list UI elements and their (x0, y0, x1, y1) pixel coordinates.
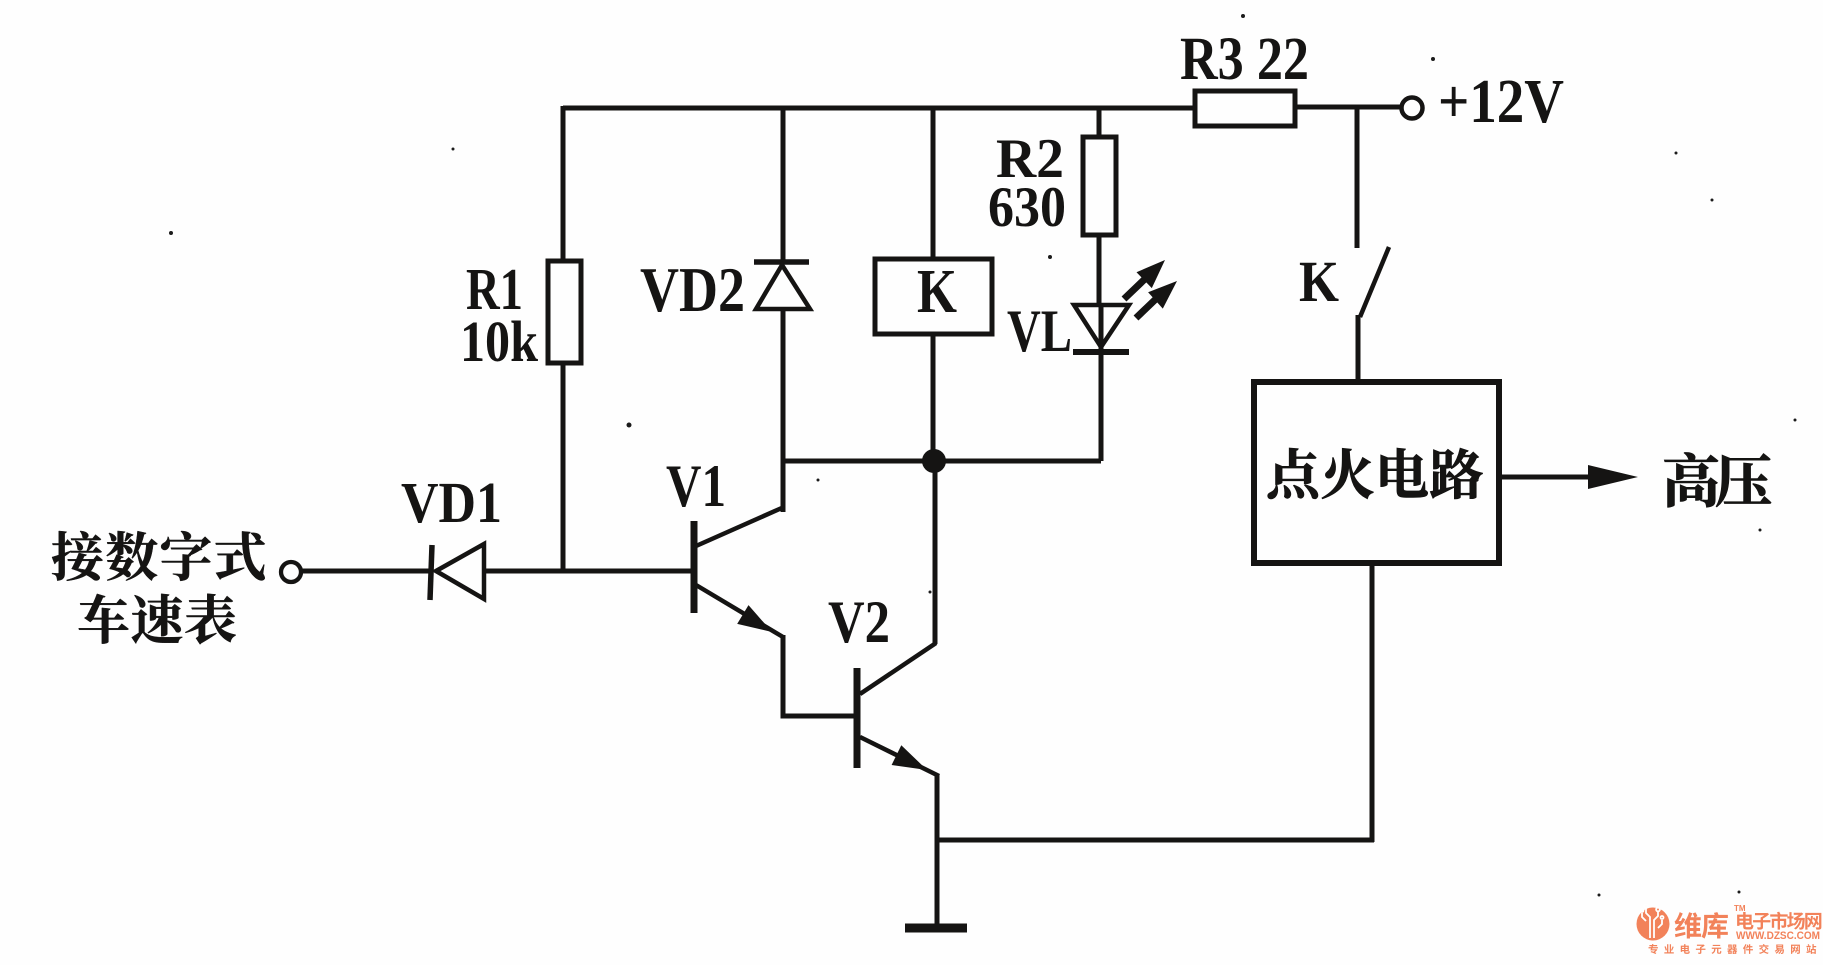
diode VD2 (754, 262, 810, 309)
label 高压 (1664, 453, 1771, 508)
svg-text:10k: 10k (460, 309, 539, 374)
watermark logo (1637, 904, 1670, 940)
terminal +12V (1402, 98, 1423, 119)
svg-text:V1: V1 (666, 453, 726, 519)
label 车速表 (79, 594, 236, 645)
wire R2 to VL (1097, 235, 1102, 308)
ground (905, 924, 967, 933)
wire input terminal to VD1 (302, 569, 432, 574)
wire V1 emitter to V2 base (783, 635, 857, 716)
wire V2 emitter down to ground (935, 775, 940, 928)
wire top rail down to R1 (561, 106, 566, 262)
transistor V1 (694, 460, 784, 637)
svg-text:630: 630 (988, 176, 1066, 239)
resistor R1 (548, 261, 581, 363)
svg-text:+12V: +12V (1438, 68, 1564, 136)
watermark 维库 (1675, 912, 1728, 939)
svg-text:K: K (917, 258, 957, 326)
LED VL (1073, 305, 1129, 352)
ignition circuit block 点火电路 (1254, 382, 1499, 563)
transistor V2 (857, 643, 939, 776)
wire relay K to node (931, 334, 936, 460)
wire VD1 to V1 base (484, 569, 695, 574)
arrow to high voltage output (1502, 465, 1638, 489)
wire top supply rail (563, 106, 1197, 111)
wire top rail down to R2 (1097, 108, 1102, 140)
resistor R3 (1195, 91, 1295, 126)
svg-text:WWW.DZSC.COM: WWW.DZSC.COM (1736, 930, 1820, 942)
svg-text:VL: VL (1007, 298, 1072, 364)
wire top rail down to relay K (931, 108, 936, 259)
wire ignition box bottom to emitter rail (1370, 563, 1375, 842)
label R2 630 (988, 128, 1066, 239)
switch K blade (1358, 247, 1389, 382)
LED light arrows (1124, 260, 1177, 318)
watermark tagline (1649, 944, 1817, 954)
watermark 电子市场网 (1737, 912, 1821, 930)
svg-text:R3 22: R3 22 (1180, 26, 1309, 93)
wire R3 to +12V terminal (1293, 105, 1403, 110)
terminal input from digital speedometer (281, 562, 301, 582)
wire top rail down to VD2 (781, 108, 786, 262)
wire VL to node rail (1099, 352, 1104, 461)
svg-text:K: K (1299, 249, 1339, 314)
node junction dot (922, 449, 946, 473)
wire VD2 to V1 collector (781, 309, 786, 512)
relay coil K (875, 258, 992, 334)
svg-text:VD1: VD1 (401, 470, 502, 535)
wire emitter rail (935, 838, 1374, 843)
wire +12V rail down to switch K (1355, 107, 1360, 248)
label R1 10k (460, 256, 539, 374)
svg-text:VD2: VD2 (640, 255, 745, 325)
svg-text:V2: V2 (828, 589, 890, 655)
wire V2 collector to node (933, 461, 938, 644)
label 接数字式 (52, 531, 265, 581)
svg-text:TM: TM (1734, 904, 1746, 913)
wire collector node rail (783, 459, 1101, 464)
resistor R2 (1083, 137, 1116, 235)
wire R1 to base rail (561, 363, 566, 571)
diode VD1 (430, 544, 484, 600)
